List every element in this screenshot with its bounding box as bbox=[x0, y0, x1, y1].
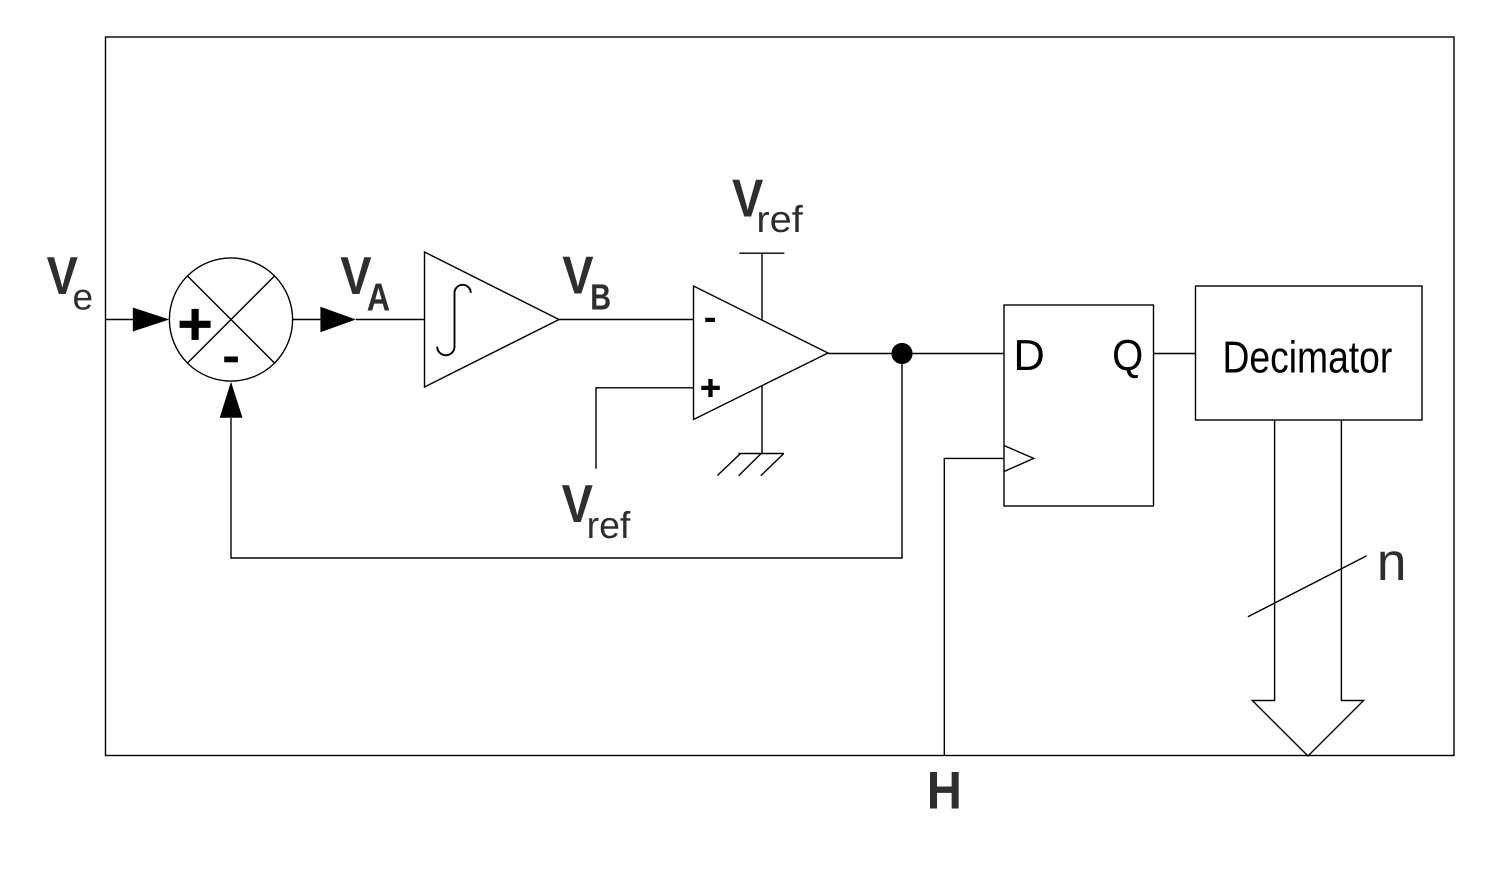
svg-text:ref: ref bbox=[756, 198, 803, 240]
svg-text:Q: Q bbox=[1112, 332, 1143, 380]
svg-text:B: B bbox=[590, 277, 611, 318]
svg-text:ref: ref bbox=[587, 504, 631, 546]
svg-text:n: n bbox=[1377, 533, 1407, 592]
svg-text:e: e bbox=[73, 277, 94, 318]
svg-text:V: V bbox=[562, 247, 594, 306]
svg-text:H: H bbox=[927, 761, 962, 820]
svg-text:D: D bbox=[1013, 332, 1044, 380]
svg-text:Decimator: Decimator bbox=[1223, 331, 1393, 382]
svg-text:A: A bbox=[367, 277, 390, 320]
